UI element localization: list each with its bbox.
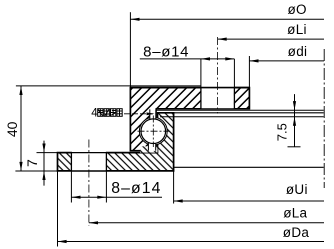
dimension 7 [24,141,46,186]
svg-text:40: 40 [4,121,20,137]
flange top edge across hole [58,152,158,154]
dimension øLi [218,22,324,41]
dimension 40 [4,86,22,171]
dimension øLa [89,205,324,224]
dimension øUi [174,171,324,204]
dimension øO [130,2,324,88]
inner ring seating surface lines (right side) [157,109,324,111]
dimension 7.5 [274,94,300,147]
extension line 40/7-bottom [15,170,57,172]
part B under-ball patch [140,146,158,152]
ball center mark [138,116,170,148]
dimension øDa [58,171,325,247]
dimension ødi [249,44,324,87]
oil hole label 4油孔均布 with leader [91,107,154,119]
plate bottom edge across hole [157,108,250,110]
svg-text:8–ø14: 8–ø14 [143,43,189,60]
svg-text:7: 7 [24,159,40,167]
bolt hole top (8-ø14 in upper flange plate) [201,86,235,109]
axis centerline [323,49,325,188]
oil hole notch below ball [148,141,155,151]
inner ring bottom silhouette line [174,166,324,168]
dimension 8-ø14 top [140,37,235,114]
svg-text:øDa: øDa [283,225,310,240]
svg-text:øUi: øUi [286,182,308,197]
flange bottom edge across hole [58,170,174,172]
svg-text:7.5: 7.5 [274,123,289,141]
extension line 40-top [16,85,201,87]
ball race pocket [139,117,167,145]
top surface edge [130,87,249,89]
svg-text:øO: øO [288,2,307,17]
svg-text:øLa: øLa [283,205,307,220]
svg-text:øLi: øLi [287,22,307,37]
ball [141,119,166,144]
svg-text:8–ø14: 8–ø14 [111,180,161,197]
oil hole slot above ball [150,108,156,122]
svg-text:ødi: ødi [288,44,308,59]
extension line 7-top [37,152,58,154]
ring section A (upper ring with top flange plate) [130,88,249,151]
dimension 8-ø14 bottom [71,140,162,226]
ring section B (lower ring with mounting flange) [58,113,174,171]
bolt hole bottom (8-ø14 in lower flange) [71,151,106,171]
